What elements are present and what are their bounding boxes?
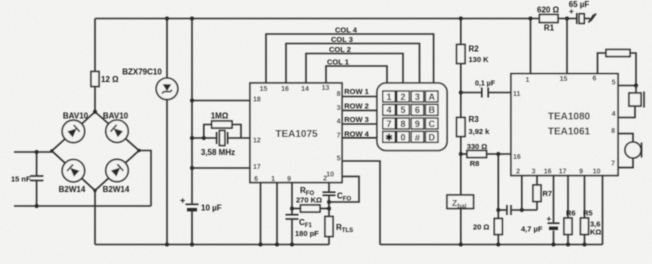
resistor R5 3,6K pin9 [584,176,586,219]
resistor R7 pin3 [536,176,538,186]
keypad keys row2 [383,104,396,115]
resistor R3 3,92k [460,93,462,118]
receiver earpiece [625,142,641,158]
wire pin10 TEA1080 down [602,176,604,245]
wire bridge diagonal bottom-left [52,151,95,191]
resistor R1 620 ohm [539,15,558,23]
resistor RTLS [325,217,333,237]
node 10uF ground rail [190,243,194,247]
wire 1M parallel branch [204,125,212,139]
wire bridge diagonal top-right [95,112,139,151]
capacitor 4,7 uF pin16 [553,176,555,223]
wire pin10 loop [329,176,359,202]
zener BZX79C10 branch wires [166,19,168,79]
capacitor 15 nF [30,175,43,177]
keypad keys row3 [383,118,396,129]
wire vdd branch x192 [191,19,193,205]
wire pin5 to ground rail right [342,161,380,245]
wire ROW3 pin4 [342,123,377,125]
node zener top rail [165,17,169,21]
wire top supply rail [95,18,539,20]
resistor R6 pin17 [567,176,569,219]
resistor R2 130K branch [460,19,462,45]
wire bridge diagonal top-left [52,112,95,151]
resistor mic bias pin6 [598,53,607,74]
wire telephone line input b [14,205,151,207]
node line-a junction [35,150,39,154]
wire ROW1 pin8 [342,96,377,98]
wire pin14 to COL2 [306,54,403,84]
diode BZW14 bottom-right [106,159,128,181]
wire pin18 TEA1075 [192,100,250,102]
wire receive attenuator branch x498 [496,152,500,156]
resistor 20 ohm [497,210,499,219]
wire bottom ground rail right [380,244,603,246]
wire pin2 TEA1080 down [521,176,523,211]
IC TEA1075 [250,83,342,183]
keypad keys row1 [383,91,438,142]
wire pin6 down [260,183,262,245]
resistor 12 ohm [91,72,99,87]
zener BZX79C10 [156,78,178,100]
impedance Zbal [460,154,462,195]
diode BZW14 bottom-left [62,160,84,182]
wire pin2 down [328,183,330,193]
node line-b junction [35,204,39,208]
wire ROW4 pin7 [342,137,377,139]
wire pin4 to mic [618,106,635,118]
node bridge bottom [93,189,96,192]
wire pin5 to mic node [618,85,636,87]
wire bridge bottom to ground rail [94,191,96,245]
wire pin1 down [276,183,278,245]
wire ROW2 pin3 [342,109,377,111]
wire 12 ohm branch [94,19,96,72]
capacitor 65 uF [565,17,569,21]
node bridge top [93,110,97,114]
wire telephone line input a [14,151,52,153]
wire pin7 to receiver [618,158,633,168]
microphone [635,86,637,94]
node x192 top rail [190,17,194,21]
node zener ground rail [165,243,169,247]
wire pin15 TEA1080 [566,19,568,74]
resistor R8 330 ohm [459,152,463,156]
crystal 3,58 MHz [217,131,228,146]
wire pin8 to receiver [618,134,633,142]
capacitor pin2 coupling [498,209,506,211]
wire bridge diagonal bottom-right [95,151,139,191]
keypad keys row4 [383,131,396,142]
wire pin1 TEA1080 [530,19,532,74]
wire bottom ground rail left [95,244,329,246]
keypad digits row1 [385,92,435,144]
wire break squiggle [589,14,597,23]
capacitor CF1 180 pF [286,214,299,216]
diode BAV10 top-right [106,120,128,142]
capacitor CFO [323,191,336,193]
wire pin17 TEA1075 [192,167,250,169]
wire pin9 down [291,183,293,215]
node bridge right [137,149,140,152]
IC TEA1080 TEA1061 [511,74,618,176]
diode BAV10 top-left [62,120,84,142]
wire bridge right vertex to line-b [139,151,151,207]
capacitor 0,1 uF pin11 [459,91,463,95]
keypad [377,83,447,151]
resistor 1M [212,121,232,128]
wire pin13 to COL1 [326,66,387,84]
capacitor 15 nF branch wires [36,152,38,176]
wire pin16 to COL3 [286,44,420,84]
node bridge left [50,149,53,152]
wire pin15 to COL4 [266,34,434,84]
wire crystal net pin12 [192,137,217,139]
resistor RFO 270 K [292,208,301,210]
capacitor 10 uF [186,203,199,205]
